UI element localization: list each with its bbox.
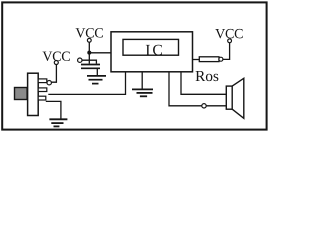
connector P1 gray block — [15, 88, 28, 100]
IC pin to speaker bottom — [169, 73, 202, 106]
label Ros — [196, 71, 219, 81]
IC ground pin — [141, 72, 143, 89]
IC U1 outer box — [111, 32, 193, 72]
VCC terminal circle (middle) — [87, 38, 91, 42]
node circle at resistor right — [219, 57, 223, 61]
node circle on speaker bottom wire — [202, 104, 206, 108]
VCC terminal circle (left) — [54, 61, 58, 65]
IC pin to speaker top — [181, 73, 226, 95]
IC label — [146, 45, 162, 55]
connector P1 body — [28, 73, 39, 115]
ground (connector) — [49, 119, 67, 126]
node circle on pin 1 — [47, 81, 51, 85]
VCC terminal circle (right) — [228, 39, 232, 43]
input terminal circle (mic bias) — [78, 58, 82, 62]
wire VCC rail down to capacitor — [88, 42, 90, 63]
speaker LS1 horn — [232, 78, 244, 118]
wire node to speaker bottom — [206, 105, 226, 107]
IC U1 inner box — [123, 39, 179, 55]
wire junction to IC left pin — [89, 52, 111, 54]
wire pin2 to IC pin1 (signal) — [48, 73, 125, 95]
VCC label (right) — [215, 29, 242, 38]
wire IC to resistor — [193, 59, 200, 61]
ground (IC) — [132, 89, 153, 96]
plug contact pin 2 — [38, 88, 47, 92]
resistor Ros — [199, 57, 219, 62]
ground (capacitor) — [87, 76, 106, 84]
speaker LS1 driver — [226, 86, 232, 109]
VCC label (left) — [43, 52, 70, 61]
wire pin3 to ground — [46, 101, 61, 118]
capacitor stem (right side) — [96, 68, 98, 75]
wire resistor to VCC (right) — [223, 43, 230, 60]
wire pin1 to VCC (left) — [51, 64, 56, 82]
capacitor C1 — [81, 65, 100, 69]
junction dot — [87, 51, 91, 55]
plug contact pin 1 — [38, 79, 47, 83]
plug contact pin 3 — [38, 96, 46, 100]
VCC label (middle) — [76, 28, 103, 37]
wire terminal to capacitor top — [82, 60, 96, 63]
